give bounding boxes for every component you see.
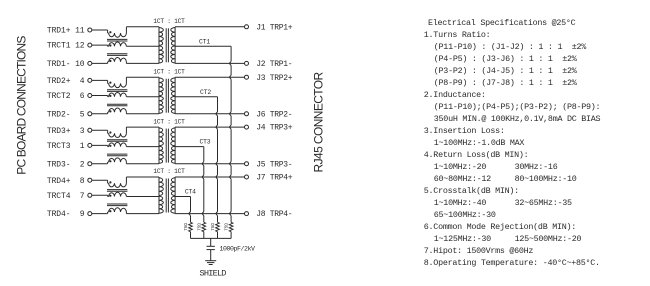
svg-text:TRD1- 10: TRD1- 10 — [47, 60, 85, 69]
svg-text:6.Common Mode Rejection(dB MIN: 6.Common Mode Rejection(dB MIN): — [424, 222, 576, 232]
svg-text:3.Insertion Loss:: 3.Insertion Loss: — [424, 126, 505, 136]
svg-text:TRCT2 6: TRCT2 6 — [47, 92, 85, 101]
svg-text:1~10MHz:-40 32~65MHz:-35: 1~10MHz:-40 32~65MHz:-35 — [434, 198, 572, 208]
svg-text:1000pF/2kV: 1000pF/2kV — [220, 245, 256, 252]
svg-text:TRD3+ 3: TRD3+ 3 — [47, 127, 85, 136]
svg-text:1~100MHz:-1.0dB MAX: 1~100MHz:-1.0dB MAX — [434, 138, 525, 148]
svg-text:J2 TRP1-: J2 TRP1- — [256, 60, 292, 69]
svg-text:75Ω: 75Ω — [197, 223, 202, 231]
svg-text:TRD2- 5: TRD2- 5 — [47, 110, 85, 119]
svg-text:65~100MHz:-30: 65~100MHz:-30 — [434, 210, 496, 220]
svg-text:2.Inductance:: 2.Inductance: — [424, 90, 486, 100]
svg-text:CT4: CT4 — [185, 189, 196, 196]
svg-text:(P11-P10) : (J1-J2) : 1 : 1 ±: (P11-P10) : (J1-J2) : 1 : 1 ±2% — [434, 42, 587, 52]
svg-text:75Ω: 75Ω — [211, 223, 216, 231]
svg-text:1CT : 1CT: 1CT : 1CT — [153, 68, 185, 75]
svg-text:J3 TRP2+: J3 TRP2+ — [256, 74, 293, 83]
svg-text:75Ω: 75Ω — [184, 223, 189, 231]
svg-text:(P4-P5) : (J3-J6) : 1 : 1 ±2%: (P4-P5) : (J3-J6) : 1 : 1 ±2% — [434, 54, 578, 64]
svg-text:TRD4+ 8: TRD4+ 8 — [47, 177, 85, 186]
svg-text:(P8-P9) : (J7-J8) : 1 : 1 ±2%: (P8-P9) : (J7-J8) : 1 : 1 ±2% — [434, 78, 578, 88]
svg-text:Electrical Specifications @25°: Electrical Specifications @25°C — [428, 18, 576, 28]
svg-text:1.Turns Ratio:: 1.Turns Ratio: — [424, 30, 491, 40]
svg-text:J7 TRP4+: J7 TRP4+ — [256, 174, 293, 183]
svg-text:TRD2+ 4: TRD2+ 4 — [47, 77, 85, 86]
svg-text:CT3: CT3 — [199, 139, 210, 146]
svg-text:8.Operating Temperature: -40°C: 8.Operating Temperature: -40°C~+85°C. — [424, 258, 600, 268]
svg-text:5.Crosstalk(dB MIN):: 5.Crosstalk(dB MIN): — [424, 186, 519, 196]
svg-text:1CT : 1CT: 1CT : 1CT — [153, 18, 185, 25]
svg-text:60~80MHz:-12 80~100MHz:-10: 60~80MHz:-12 80~100MHz:-10 — [434, 174, 577, 184]
svg-text:TRCT1 12: TRCT1 12 — [47, 42, 85, 51]
svg-text:1~10MHz:-20 30MHz:-16: 1~10MHz:-20 30MHz:-16 — [434, 162, 558, 172]
svg-text:1CT : 1CT: 1CT : 1CT — [153, 168, 185, 175]
svg-text:1~125MHz:-30 125~500MHz:-2: 1~125MHz:-30 125~500MHz:-20 — [434, 234, 582, 244]
svg-text:J5 TRP3-: J5 TRP3- — [256, 160, 292, 169]
svg-text:TRD3- 2: TRD3- 2 — [47, 160, 85, 169]
svg-text:SHIELD: SHIELD — [200, 268, 227, 278]
svg-text:(P3-P2) : (J4-J5) : 1 : 1 ±2%: (P3-P2) : (J4-J5) : 1 : 1 ±2% — [434, 66, 578, 76]
svg-text:1CT : 1CT: 1CT : 1CT — [153, 118, 185, 125]
svg-text:CT1: CT1 — [199, 38, 210, 45]
svg-text:J1 TRP1+: J1 TRP1+ — [256, 23, 293, 32]
svg-text:4.Return Loss(dB MIN):: 4.Return Loss(dB MIN): — [424, 150, 529, 160]
svg-text:350uH MIN.@ 100KHz,0.1V,8mA DC: 350uH MIN.@ 100KHz,0.1V,8mA DC BIAS — [434, 114, 601, 124]
svg-text:RJ45 CONNECTOR: RJ45 CONNECTOR — [312, 71, 326, 172]
svg-text:PC BOARD CONNECTIONS: PC BOARD CONNECTIONS — [14, 36, 28, 175]
svg-text:TRCT3 1: TRCT3 1 — [47, 142, 85, 151]
svg-text:TRD1+ 11: TRD1+ 11 — [47, 27, 85, 36]
svg-text:(P11-P10);(P4-P5);(P3-P2); (P8: (P11-P10);(P4-P5);(P3-P2); (P8-P9): — [434, 102, 600, 112]
svg-text:7.Hipot: 1500Vrms @60Hz: 7.Hipot: 1500Vrms @60Hz — [424, 246, 534, 256]
svg-text:J8 TRP4-: J8 TRP4- — [256, 210, 292, 219]
svg-text:TRD4- 9: TRD4- 9 — [47, 210, 85, 219]
svg-text:TRCT4 7: TRCT4 7 — [47, 192, 85, 201]
svg-text:75Ω: 75Ω — [225, 223, 230, 231]
svg-text:J4 TRP3+: J4 TRP3+ — [256, 124, 293, 133]
svg-text:J6 TRP2-: J6 TRP2- — [256, 110, 292, 119]
svg-text:CT2: CT2 — [200, 89, 211, 96]
